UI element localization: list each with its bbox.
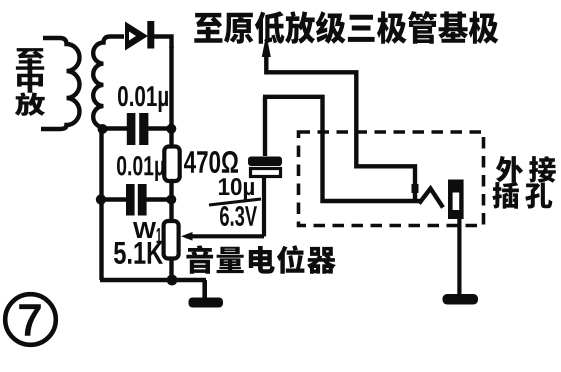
transformer T1 secondary winding	[93, 37, 124, 132]
jack plug bar	[448, 180, 464, 220]
diode D cathode bar	[147, 21, 154, 49]
label 外接	[496, 156, 556, 183]
ref W1	[133, 222, 162, 243]
jack contact tip	[412, 184, 419, 193]
wire C2 left lead	[101, 197, 127, 201]
value R1 470ohm	[184, 151, 238, 173]
node dot C1-right	[166, 124, 176, 134]
jack spring contact	[419, 189, 443, 208]
label 音量电位器	[186, 245, 336, 274]
node dot bottom junction	[167, 275, 178, 286]
wire right rail upper	[169, 46, 173, 147]
title 至原低放级三极管基极	[194, 11, 498, 44]
value W1 5.1K	[114, 242, 163, 264]
wire C3 top lead and elbow into jack box	[263, 97, 421, 201]
wire bottom rail	[100, 278, 206, 283]
value C1 0.01u	[118, 86, 168, 112]
wire C3 bottom lead to wiper	[262, 176, 266, 236]
wire left rail	[99, 129, 103, 280]
wire C1 right lead	[147, 126, 172, 130]
capacitor C1 0.01u plates	[127, 113, 149, 145]
wire C2 right lead	[146, 197, 172, 201]
wire jack to right ground	[457, 219, 461, 295]
capacitor C3 positive plate	[248, 157, 282, 167]
potentiometer W1 wiper arrow	[181, 232, 264, 241]
wire to left ground	[202, 280, 207, 298]
potentiometer W1 body	[164, 221, 179, 259]
figure number 7	[20, 305, 40, 335]
figure number circle	[5, 294, 56, 345]
fraction bar	[209, 199, 261, 205]
wire right rail pot bottom lead	[169, 257, 173, 280]
resistor R1 470ohm body	[164, 147, 179, 182]
diode D triangle	[125, 22, 148, 51]
value C3 10u	[219, 178, 254, 200]
node dot C1-left	[98, 124, 108, 134]
node dot C2-left	[96, 194, 106, 204]
dashed enclosure	[299, 132, 484, 226]
transformer T1 primary winding	[41, 38, 80, 129]
node dot C2-right	[166, 195, 176, 205]
label 插孔	[492, 182, 552, 209]
value C3 6.3V	[220, 206, 257, 226]
ground bar left	[189, 298, 224, 308]
wire arrow branch to jack contact	[266, 52, 415, 199]
label 至中放 vertical	[15, 48, 45, 116]
wire C1 left lead	[101, 126, 127, 130]
wire diode to right rail corner	[154, 37, 172, 49]
capacitor C2 0.01u plates	[126, 184, 147, 216]
output arrow to base	[262, 34, 271, 57]
wire right rail middle	[169, 180, 173, 222]
value C2 0.01u	[117, 156, 164, 181]
ground bar right	[443, 294, 479, 305]
capacitor C3 negative plate	[251, 169, 281, 177]
